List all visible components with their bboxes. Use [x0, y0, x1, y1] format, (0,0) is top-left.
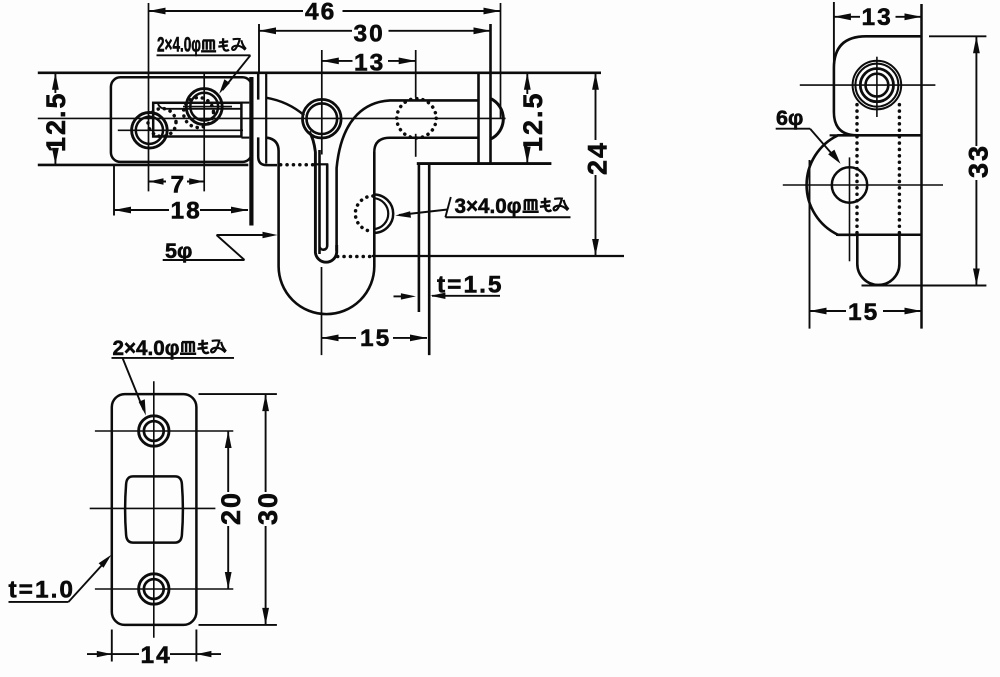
46 right extension line	[500, 3, 502, 119]
dimension 13	[322, 50, 416, 77]
svg-text:6φ: 6φ	[776, 106, 803, 130]
svg-text:t=1.0: t=1.0	[9, 577, 76, 604]
t=1.5 annotation	[394, 272, 504, 300]
label 3x4.0 sara-momi	[395, 194, 570, 218]
dotted circle vertical centerline / 13 right extension	[415, 50, 417, 98]
label 5-phi	[163, 232, 278, 263]
dimension 30 (strike)	[199, 394, 284, 625]
dimension 18	[114, 166, 248, 225]
lobe bottom line	[836, 234, 922, 237]
lower wing top edge / bar bottom extension	[417, 162, 552, 165]
dimension 12.5 right	[518, 73, 548, 164]
body left flange outer edge (gap where bolt passes)	[257, 73, 260, 100]
svg-text:3×4.0φ: 3×4.0φ	[455, 194, 522, 218]
knob vertical centerline / 13 left extension	[321, 50, 323, 155]
label 6-phi	[776, 106, 841, 164]
svg-text:15: 15	[360, 325, 391, 352]
svg-text:12.5: 12.5	[41, 91, 71, 152]
keeper screw hole right	[186, 89, 222, 125]
dimension 33	[862, 36, 994, 285]
dotted circle at left hole	[148, 109, 176, 137]
screw hole on handle (3x4.0) solid right half	[374, 195, 393, 233]
bottom screw hole	[139, 574, 169, 604]
bolt housing head outline	[834, 36, 922, 135]
right hole horizontal centerline	[183, 106, 232, 108]
bolt flare fillet left of knob	[267, 98, 305, 116]
knob circle outer	[303, 99, 342, 138]
svg-text:33: 33	[964, 144, 994, 178]
head left edge / 13 extension	[833, 2, 835, 68]
dimension 20	[216, 431, 246, 589]
hidden plate bottom edge (dotted) behind handle	[281, 163, 313, 167]
bottom hole horizontal centerline	[95, 588, 233, 590]
right hole vertical centerline	[203, 73, 205, 191]
label 2x4.0 sara-momi (top)	[157, 33, 251, 94]
bolt tip bulge	[490, 98, 503, 139]
svg-text:13: 13	[862, 4, 893, 31]
svg-text:15: 15	[848, 299, 879, 326]
svg-text:12.5: 12.5	[518, 91, 548, 152]
svg-text:13: 13	[354, 50, 385, 77]
label 2x4.0 sara-momi (bottom)	[112, 336, 235, 416]
keeper plate (side view rounded rect)	[111, 77, 252, 162]
svg-text:30: 30	[354, 21, 385, 48]
assembly horizontal centerline	[38, 117, 506, 119]
label t=1.0	[9, 555, 112, 604]
svg-text:2×4.0φ: 2×4.0φ	[157, 33, 201, 57]
bolt tip (side view)	[857, 235, 899, 285]
plate horizontal centerline	[90, 507, 216, 509]
bolt rod bottom edge with fillet from handle	[374, 138, 477, 152]
6-phi hole horizontal centerline	[783, 184, 943, 186]
left hole vertical centerline / 46 left extension	[148, 3, 150, 191]
handle U outline	[267, 138, 374, 314]
keeper loop inner bottom / left hole horizontal centerline	[118, 129, 243, 131]
wing inner face line (t=1.5 left)	[418, 164, 421, 312]
dotted circle in top bar	[397, 99, 436, 138]
slot inner line left	[318, 150, 321, 254]
bolt rod top edge with sweep curve down right of knob into slot	[337, 100, 478, 251]
6-phi hole vertical centerline	[849, 157, 851, 261]
top hole horizontal centerline	[95, 430, 233, 432]
knob circle inner	[307, 103, 338, 134]
svg-text:t=1.5: t=1.5	[437, 272, 504, 299]
hidden bolt shaft dotted lines	[855, 105, 859, 235]
dimension 15 main	[322, 325, 428, 352]
dimension 7	[149, 171, 205, 198]
body left flange bend line	[265, 73, 267, 164]
hidden wing bottom dotted behind handle	[338, 255, 372, 259]
svg-text:24: 24	[583, 141, 613, 175]
svg-text:7: 7	[171, 171, 185, 198]
dimension 15 (side view)	[810, 160, 922, 329]
dimension 30	[259, 21, 491, 73]
6-phi hole	[832, 167, 867, 202]
dimension 12.5 left	[41, 73, 71, 165]
dimension 13 (side view)	[834, 4, 922, 31]
svg-text:14: 14	[141, 642, 172, 669]
dimension 46	[149, 0, 501, 26]
plate vertical centerline	[153, 381, 155, 637]
wing bottom edge / 24 bottom extension	[372, 255, 624, 257]
plate bottom edge seen through slot	[314, 163, 329, 165]
slot outer left thick edge with top flare	[309, 132, 336, 263]
svg-text:46: 46	[305, 0, 336, 26]
dimension 24	[583, 73, 613, 256]
top screw hole	[139, 416, 169, 446]
bolt edge ticks between keeper and body	[241, 102, 249, 104]
screw hole dotted left half	[355, 196, 373, 231]
body right flange bend line	[477, 73, 480, 164]
lower lobe tab outline	[807, 135, 858, 235]
door surface top line	[38, 72, 601, 75]
svg-text:18: 18	[171, 198, 202, 225]
svg-text:30: 30	[253, 491, 283, 525]
dimension 14	[87, 630, 221, 670]
keeper right edge / 18 extension thick line	[249, 77, 253, 226]
slot inner line right	[320, 164, 328, 249]
head bottom line	[830, 134, 922, 136]
knob circles (edge view)	[853, 61, 902, 110]
svg-text:20: 20	[216, 491, 246, 525]
body right edge / 30 right extension	[489, 24, 492, 164]
svg-text:2×4.0φ: 2×4.0φ	[113, 336, 180, 360]
knob vertical centerline	[876, 57, 878, 117]
keeper staple loop outer	[153, 103, 241, 137]
center latch cutout (barrel sides)	[125, 476, 183, 542]
mounting plate edge line	[920, 4, 923, 329]
strike plate outline	[112, 394, 197, 625]
wing outer face line (t=1.5 right / 15 right extension)	[428, 164, 431, 355]
keeper staple loop inner top line	[158, 104, 241, 109]
dotted circle at right hole	[184, 98, 214, 128]
slot centerline / 15 left extension	[321, 267, 323, 355]
keeper screw hole left	[132, 113, 168, 149]
door surface bottom line	[38, 164, 249, 167]
knob horizontal centerline	[800, 84, 936, 86]
